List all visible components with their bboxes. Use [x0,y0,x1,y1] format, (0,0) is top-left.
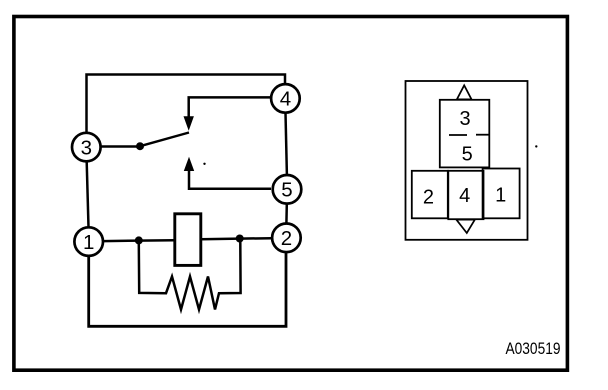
figure number A030519 [506,340,561,358]
junction dot right of coil [236,235,244,243]
terminal 5 [273,175,302,204]
wire terminal 4 branch to fixed contact (down arrow) [184,97,271,130]
connector cavity 1 [483,169,520,219]
svg-text:4: 4 [459,185,470,207]
wire terminal 4 to terminal 5 [286,113,287,175]
connector cavity 4 [448,171,483,219]
pin label 2 [423,186,434,208]
wire left vertical terminal 3 to terminal 1 [87,162,89,227]
connector housing outline [406,81,528,240]
wire terminal 1 to relay coil [104,239,175,242]
wire terminal 3 to switch pivot [102,145,141,148]
pin label 4 [459,185,470,207]
pin label 3 [459,108,470,130]
svg-text:3: 3 [81,136,92,159]
wire terminal 5 branch to fixed contact (up arrow) [184,157,271,189]
terminal 2 [272,224,301,253]
connector keying arrow down [456,220,474,233]
junction dot switch pivot [136,142,144,150]
terminal 1 [74,227,103,256]
relay coil [175,214,201,266]
terminal 4 [271,84,300,113]
speck near connector [535,145,537,147]
wire top bus from terminal 3 to terminal 4 [87,75,286,134]
wire terminal 5 to terminal 2 [285,204,288,224]
connector cavity 3/5 [440,100,490,168]
terminal 3 [72,133,101,162]
svg-text:2: 2 [281,227,292,250]
wire relay coil to terminal 2 [201,238,272,239]
svg-text:1: 1 [83,231,94,254]
svg-text:5: 5 [462,144,473,166]
junction dot left of coil [135,236,143,244]
connector keying arrow up [457,85,472,99]
resistor (parallel with coil) [139,242,241,310]
wire bottom bus terminal 1 to terminal 2 [89,253,286,327]
svg-text:2: 2 [423,186,434,208]
pin label 1 [495,185,506,207]
switch arm (movable contact) [140,133,189,147]
connector cavity 2 [412,171,448,219]
svg-text:5: 5 [281,179,292,202]
svg-text:4: 4 [280,88,291,111]
svg-text:3: 3 [459,108,470,130]
speck near switch [203,163,205,165]
svg-text:1: 1 [495,185,506,207]
svg-text:A030519: A030519 [506,340,561,358]
pin label 5 [462,144,473,166]
